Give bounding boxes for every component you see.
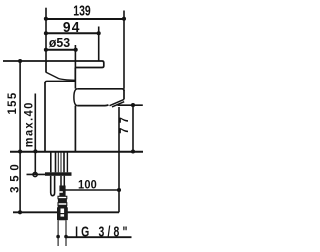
svg-text:ø53: ø53 [49, 36, 70, 50]
node dot 94 left [44, 31, 48, 35]
check valve hex mid line [58, 213, 68, 215]
faucet aerator face line outer [110, 99, 125, 105]
faucet body column left edge [44, 82, 46, 152]
wire 350 bottom reference line [13, 211, 119, 213]
shank outer right below deck [66, 152, 68, 172]
node dot 100 right [117, 188, 121, 192]
node dot tube left [56, 235, 60, 239]
dimension 77 line [132, 105, 134, 151]
check valve crimp white notch [59, 191, 62, 193]
connection tube left edge [57, 220, 59, 246]
svg-text:100: 100 [78, 179, 97, 191]
svg-text:IG 3/8": IG 3/8" [75, 224, 131, 240]
node dot tube right [64, 235, 68, 239]
node dot o53 right [74, 48, 78, 52]
svg-text:350: 350 [8, 160, 21, 193]
left hose below flange [51, 176, 55, 196]
check valve dark band [58, 199, 67, 203]
deck countertop line [10, 151, 143, 153]
dimension 139 line [46, 18, 124, 20]
faucet body column right edge [74, 106, 76, 152]
svg-text:max.40: max.40 [23, 101, 35, 147]
check valve upper nut dark band [58, 205, 67, 208]
check valve white band 2 [58, 203, 67, 206]
node dot 94 right [97, 31, 101, 35]
check valve hex facet right [64, 208, 67, 220]
wire extension line right 139 [123, 11, 125, 89]
node dot 77 top [131, 103, 135, 107]
svg-text:155: 155 [6, 92, 19, 115]
svg-text:77: 77 [119, 113, 131, 134]
mounting flange [45, 172, 72, 176]
node dot 155 bottom [18, 149, 22, 153]
hose line a [55, 152, 57, 172]
check valve bottom band [58, 217, 66, 221]
label leader underline IG 3/8 [66, 236, 132, 238]
wire lever top extension to left [3, 60, 46, 62]
svg-text:139: 139 [73, 3, 90, 19]
node dot 139 right [122, 17, 126, 21]
node dot 139 left [44, 17, 48, 21]
connection tube right edge [65, 220, 67, 246]
right hose below flange [61, 176, 64, 186]
svg-text:94: 94 [63, 19, 81, 36]
wire extension line left (top dims) [45, 8, 47, 61]
wire extension outlet vertical [118, 107, 120, 212]
dimension 155 line [19, 61, 21, 152]
dimension max40 line [34, 94, 36, 175]
node circle max40 bottom [33, 172, 37, 176]
faucet spout right edge [123, 90, 125, 100]
node dot o53 left [44, 48, 48, 52]
faucet neck edge [74, 68, 76, 82]
node dot max40 deck [33, 149, 37, 153]
dimension 350 line [19, 152, 21, 213]
wire flange top reference line [27, 173, 46, 175]
node dot 155 top [18, 59, 22, 63]
hose line d [63, 152, 65, 172]
faucet spout bottom [77, 104, 108, 107]
wire extension line right 94 [98, 27, 100, 62]
faucet lever underside slope [46, 72, 75, 80]
faucet lever top [46, 61, 104, 73]
node dot 77 bottom [131, 149, 135, 153]
dimension 100 line [64, 189, 119, 191]
hose line c [60, 152, 62, 172]
wire extension line right o53 / neck edge [74, 45, 76, 89]
dimension o53 line [46, 49, 76, 51]
node dot 350 bottom [18, 210, 22, 214]
faucet cap top [45, 81, 75, 83]
faucet spout top [77, 89, 124, 91]
check valve crimp connector [59, 186, 65, 197]
check valve hex nut body [58, 208, 68, 220]
shank outer left below deck [50, 152, 52, 172]
hose line b [57, 152, 59, 172]
wire spout outlet reference line [118, 104, 143, 106]
faucet spout left cap arc [74, 89, 77, 106]
check valve white band 1 [58, 196, 67, 198]
dimension 94 line [46, 32, 99, 34]
check valve hex facet left [58, 208, 61, 220]
faucet aerator face line inner [112, 102, 124, 107]
